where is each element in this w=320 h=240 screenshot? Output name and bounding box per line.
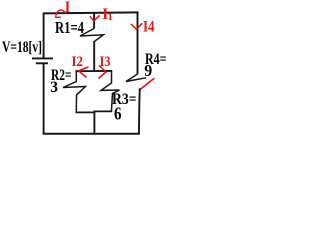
wire: parallel section top horizontal (node B) bbox=[75, 70, 112, 72]
wire: left vertical lower (source bottom lead) bbox=[43, 64, 45, 134]
wire: right vertical upper lead bbox=[137, 12, 139, 75]
resistor R4 zigzag (black part) bbox=[126, 74, 146, 82]
wire: center stem from node C to bottom wire bbox=[93, 112, 95, 134]
svg-text:1: 1 bbox=[108, 11, 114, 23]
svg-text:I: I bbox=[65, 0, 71, 16]
battery V1 short plate bbox=[36, 62, 48, 64]
svg-text:R1=4: R1=4 bbox=[55, 18, 84, 37]
current arrow I3 (red chevron pointing right) bbox=[99, 66, 107, 79]
battery V1 long plate bbox=[32, 57, 53, 59]
current arrow I2 (red chevron pointing left) bbox=[79, 67, 89, 78]
wire: top horizontal from source branch to R4 branch bbox=[43, 12, 138, 13]
svg-text:6: 6 bbox=[114, 104, 122, 124]
wire: right vertical lower lead bbox=[138, 88, 141, 134]
svg-text:3: 3 bbox=[50, 79, 58, 96]
svg-text:V=18[v]: V=18[v] bbox=[2, 39, 42, 56]
current arrow I (red swoosh crossing top wire) bbox=[55, 10, 66, 18]
current arrow I1 (red chevron) bbox=[90, 15, 100, 21]
wire: bottom horizontal bbox=[43, 133, 140, 135]
wire: parallel section bottom horizontal (node C) bbox=[76, 111, 113, 112]
svg-text:I4: I4 bbox=[143, 19, 155, 36]
wire: R1 branch bottom lead to node bbox=[93, 41, 95, 72]
current arrow I4 (red chevron) bbox=[131, 23, 142, 29]
svg-text:I2: I2 bbox=[72, 54, 84, 70]
resistor R2 zigzag with leads bbox=[63, 71, 86, 112]
wire: left vertical upper (source top lead) bbox=[43, 13, 45, 58]
svg-text:I3: I3 bbox=[100, 54, 111, 70]
current arrow through R4 (red slash) bbox=[139, 78, 154, 90]
resistor R1 zigzag bbox=[80, 29, 104, 42]
resistor R3 zigzag with leads bbox=[101, 71, 120, 112]
svg-text:9: 9 bbox=[144, 61, 152, 80]
wire: R1 branch top lead bbox=[93, 12, 95, 29]
